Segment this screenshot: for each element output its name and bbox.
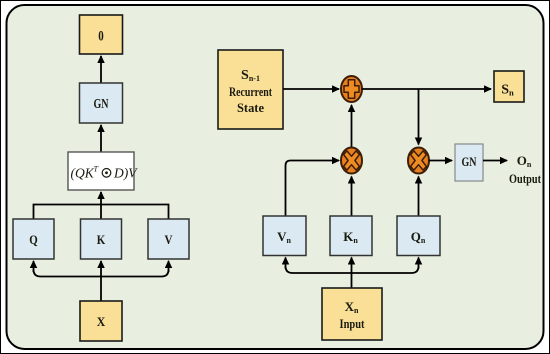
branch down to times2	[418, 89, 420, 145]
formula box (QK^T dot D)V	[68, 152, 138, 190]
svg-text:(QK: (QK	[71, 166, 95, 181]
lower bus X_n to V_n,K_n,Q_n	[286, 266, 419, 273]
box O (left output)	[80, 15, 123, 54]
wire K to formula	[100, 192, 102, 219]
upper bus Q,V to formula	[34, 205, 169, 220]
box X	[80, 301, 122, 341]
box K_n	[330, 216, 372, 256]
times node 1 (multiply)	[341, 148, 362, 174]
svg-text:X: X	[97, 314, 106, 329]
box K	[81, 219, 122, 259]
wire formula to GN	[100, 125, 102, 152]
wire plus to S_n	[362, 88, 491, 90]
box GN right	[455, 144, 483, 181]
arrow into V_n bottom	[285, 258, 287, 269]
plus node (add)	[341, 76, 362, 102]
box Q	[13, 219, 54, 259]
wire times1 up to plus	[351, 105, 353, 148]
svg-text:Q: Q	[29, 232, 38, 247]
svg-text:Recurrent: Recurrent	[229, 84, 273, 99]
svg-text:GN: GN	[94, 97, 109, 112]
box V_n	[263, 216, 306, 256]
wire K_n to times1	[351, 177, 353, 217]
times node 2 (multiply)	[408, 148, 429, 174]
wire X to K	[100, 261, 102, 301]
box X_n Input	[322, 288, 382, 340]
arrow into Q_n bottom	[418, 258, 420, 269]
svg-text:State: State	[237, 100, 264, 115]
svg-text:Output: Output	[509, 171, 542, 186]
svg-text:K: K	[97, 232, 106, 247]
svg-text:GN: GN	[462, 154, 477, 169]
svg-text:T: T	[94, 165, 99, 174]
arrow into V bottom	[168, 261, 170, 272]
wire GN to O	[100, 56, 102, 83]
wire GN to output	[483, 160, 507, 162]
wire S_{n-1} to plus	[283, 88, 339, 90]
svg-text:Input: Input	[340, 316, 366, 331]
lower bus X to Q,K,V	[34, 270, 169, 277]
wire X_n to K_n	[351, 258, 353, 289]
box S_n	[494, 71, 524, 102]
box Q_n	[397, 216, 440, 256]
box S_{n-1} Recurrent State	[218, 50, 283, 129]
svg-text:V: V	[165, 232, 174, 247]
wire times2 to GN right	[429, 160, 452, 162]
svg-text:D)V: D)V	[113, 166, 138, 181]
box V	[148, 219, 189, 259]
box GN left	[80, 83, 123, 123]
arrow into Q bottom	[33, 261, 35, 272]
wire Q_n to times2	[418, 177, 420, 217]
wire V_n to times1	[286, 161, 340, 217]
svg-text:0: 0	[98, 29, 104, 45]
